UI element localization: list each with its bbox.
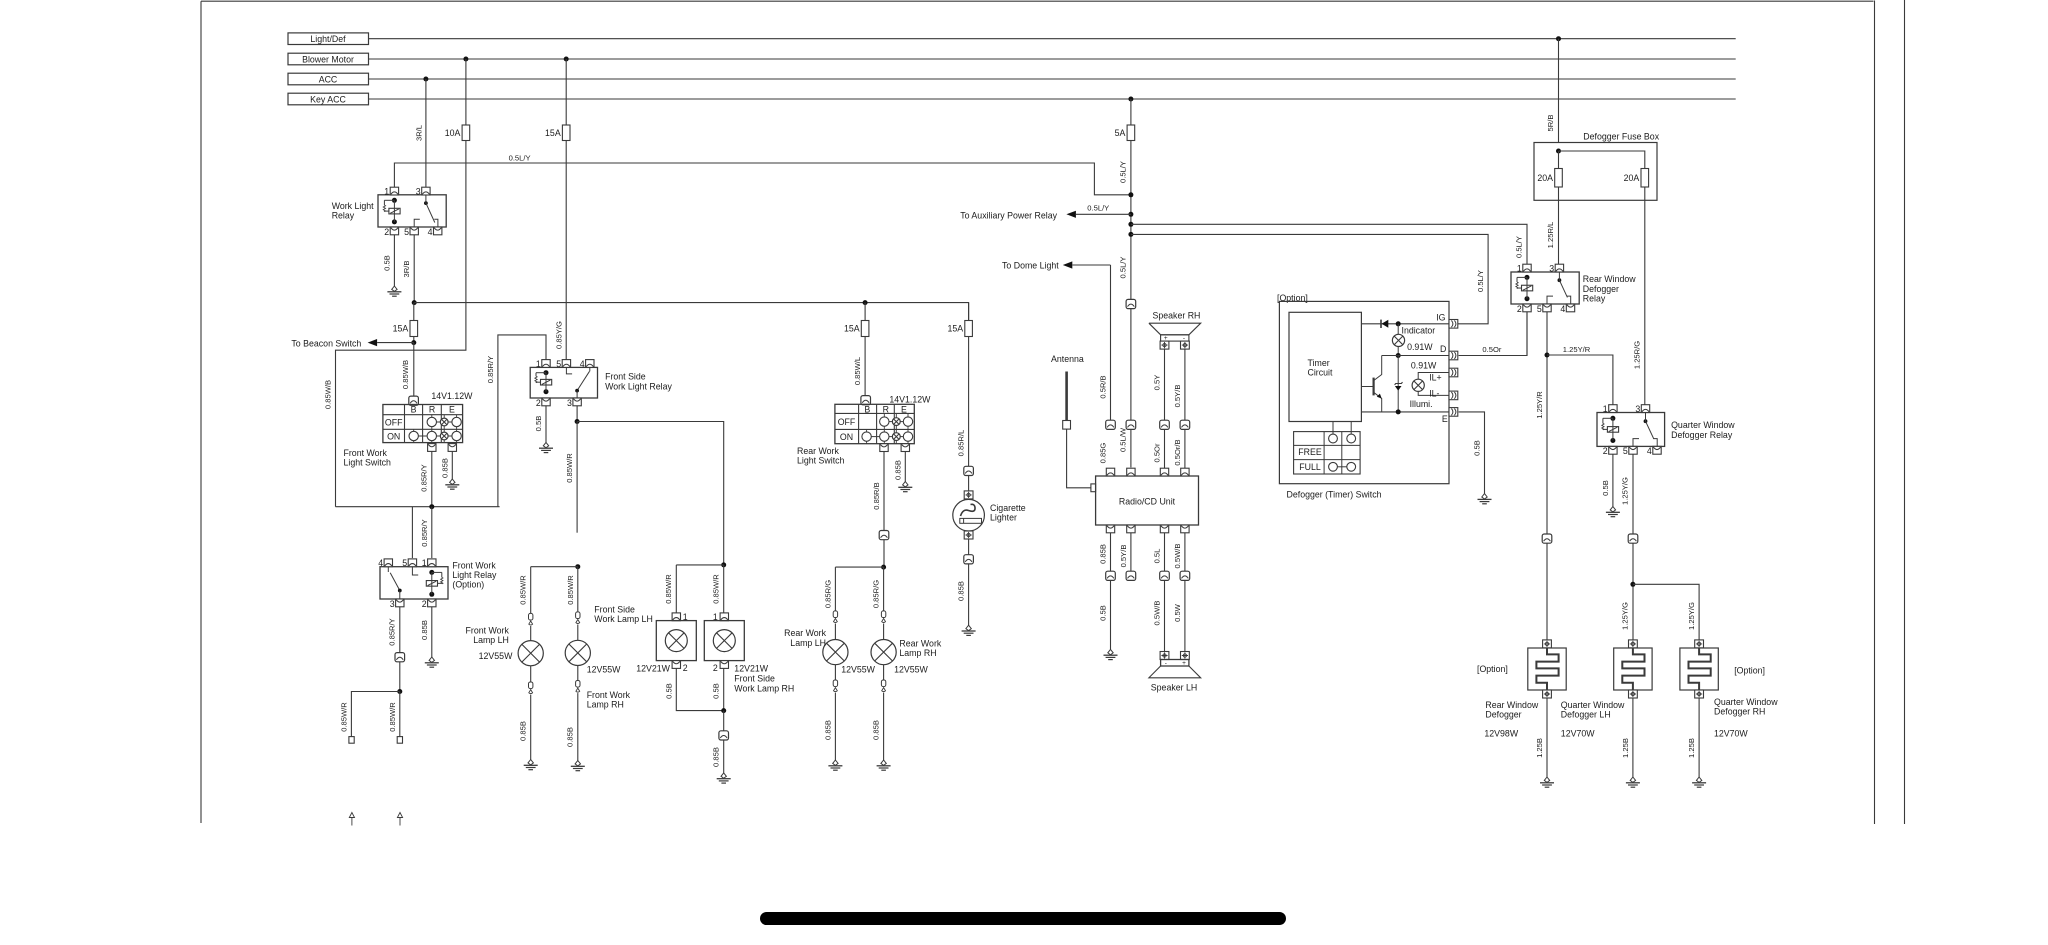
relay switch blade bbox=[589, 367, 591, 371]
relay coil bbox=[392, 198, 397, 203]
svg-text:Cigarette: Cigarette bbox=[990, 503, 1026, 513]
svg-text:0.85B: 0.85B bbox=[823, 720, 832, 740]
pin 1 bbox=[1609, 405, 1617, 413]
relay U3 Front Work Light Relay (Option) box bbox=[380, 567, 448, 599]
pin 4 bbox=[586, 360, 594, 368]
svg-text:Antenna: Antenna bbox=[1051, 354, 1084, 364]
svg-text:3: 3 bbox=[1635, 404, 1640, 414]
svg-text:0.5W/B: 0.5W/B bbox=[1173, 544, 1182, 569]
branch to quarter defogger RH bbox=[1633, 584, 1699, 648]
relay coil bbox=[429, 570, 434, 575]
ground rear lamp RH bbox=[881, 760, 886, 765]
svg-text:Defogger (Timer) Switch: Defogger (Timer) Switch bbox=[1287, 490, 1382, 500]
svg-text:1.25Y/G: 1.25Y/G bbox=[1621, 602, 1630, 630]
svg-text:0.5Y/B: 0.5Y/B bbox=[1119, 545, 1128, 568]
connector rear switch B bbox=[861, 396, 871, 405]
wire to rear defogger relay pin1 bbox=[1128, 222, 1133, 227]
svg-text:1.25R/L: 1.25R/L bbox=[1546, 222, 1555, 249]
svg-text:0.85W/R: 0.85W/R bbox=[565, 453, 574, 483]
ground quarter LH bbox=[1630, 777, 1635, 782]
svg-text:12V55W: 12V55W bbox=[894, 665, 928, 675]
wire 0.85W/R pin3 down bbox=[576, 406, 578, 422]
svg-text:Rear Work: Rear Work bbox=[797, 446, 839, 456]
wire Blower to 15A fuse bbox=[565, 59, 567, 125]
svg-text:Defogger RH: Defogger RH bbox=[1714, 707, 1765, 717]
wire 0.85B front switch E to ground bbox=[451, 451, 453, 479]
svg-text:Radio/CD Unit: Radio/CD Unit bbox=[1119, 497, 1176, 507]
svg-text:14V1.12W: 14V1.12W bbox=[889, 394, 931, 404]
svg-text:Lighter: Lighter bbox=[990, 513, 1017, 523]
wire 10A fuse down bbox=[336, 141, 466, 507]
pin4 hook bbox=[1653, 439, 1657, 447]
pin5 stub bbox=[1633, 439, 1639, 447]
ground front side relay bbox=[543, 442, 548, 447]
pin 2 bbox=[1523, 304, 1531, 312]
cigarette lighter bottom terminal bbox=[964, 531, 973, 539]
pin 1 bbox=[428, 559, 436, 567]
svg-text:1.25Y/R: 1.25Y/R bbox=[1563, 345, 1591, 354]
svg-text:2: 2 bbox=[1603, 446, 1608, 456]
pin 5 bbox=[410, 227, 418, 235]
pin 3 bbox=[422, 187, 430, 195]
svg-text:Quarter Window: Quarter Window bbox=[1561, 700, 1625, 710]
pin5 stub bbox=[412, 567, 418, 575]
radio bottom pins bbox=[1106, 525, 1114, 533]
speaker RH terminals bbox=[1160, 341, 1169, 349]
svg-text:0.5Y: 0.5Y bbox=[1152, 375, 1161, 391]
wire 1.25R/L to rear defogger relay pin3 bbox=[1558, 187, 1560, 264]
ground rear window bbox=[1544, 777, 1549, 782]
svg-text:1: 1 bbox=[1603, 404, 1608, 414]
ground lamp LH bbox=[528, 760, 533, 765]
wire 0.85R/G lamp LH bbox=[834, 567, 836, 611]
svg-text:0.5W: 0.5W bbox=[1173, 603, 1182, 622]
wire pin3 branch to front side lamps bbox=[577, 422, 724, 565]
relay switch blade bbox=[387, 567, 389, 572]
pin 2 bbox=[390, 227, 398, 235]
wire 0.85R/L 15A to lighter bbox=[968, 337, 970, 467]
svg-text:1.25R/G: 1.25R/G bbox=[1633, 341, 1642, 369]
svg-text:Defogger: Defogger bbox=[1485, 710, 1521, 720]
svg-text:0.85R/G: 0.85R/G bbox=[872, 580, 881, 608]
wire 0.5B E to ground bbox=[1459, 412, 1485, 494]
svg-text:OFF: OFF bbox=[838, 417, 856, 427]
connector inline 0.85R/L bbox=[964, 466, 974, 475]
svg-text:5A: 5A bbox=[1115, 128, 1126, 138]
fuse 10A bbox=[462, 125, 470, 141]
svg-text:Indicator: Indicator bbox=[1402, 325, 1436, 335]
pin 1 bbox=[390, 187, 398, 195]
timer circuit box bbox=[1289, 312, 1361, 421]
svg-text:5: 5 bbox=[556, 359, 561, 369]
continuation arrow right bbox=[397, 813, 402, 818]
svg-text:4: 4 bbox=[580, 359, 585, 369]
terminal lug right bbox=[397, 737, 402, 744]
svg-text:Rear Window: Rear Window bbox=[1485, 700, 1538, 710]
wire rear lamps feed bbox=[883, 540, 885, 567]
svg-text:10A: 10A bbox=[445, 128, 461, 138]
svg-text:3R/L: 3R/L bbox=[414, 125, 423, 141]
connector inline 0.85B bbox=[723, 711, 725, 731]
svg-text:Key ACC: Key ACC bbox=[310, 94, 346, 104]
wire timer to IG with diode bbox=[1361, 323, 1449, 325]
svg-text:ON: ON bbox=[840, 432, 853, 442]
fuse 15A front work light bbox=[410, 321, 418, 337]
wire 5A fuse down to radio bbox=[1130, 141, 1132, 468]
bus label ACC bbox=[288, 73, 369, 85]
svg-text:0.5L/Y: 0.5L/Y bbox=[509, 154, 531, 163]
svg-text:0.85B: 0.85B bbox=[712, 747, 721, 767]
svg-text:Work Light: Work Light bbox=[332, 201, 374, 211]
svg-text:Front Work: Front Work bbox=[452, 560, 496, 570]
wire 0.85B to ground bbox=[723, 740, 725, 773]
junction Key ACC bus x1131 bbox=[1128, 97, 1133, 102]
svg-text:12V70W: 12V70W bbox=[1714, 729, 1748, 739]
defogger element rear window top terminal bbox=[1543, 640, 1552, 648]
wire 1.25B quarter RH ground bbox=[1698, 698, 1700, 777]
svg-text:Lamp LH: Lamp LH bbox=[790, 638, 826, 648]
ground rear switch bbox=[903, 482, 908, 487]
bus wire ACC bbox=[369, 78, 1736, 80]
svg-text:[Option]: [Option] bbox=[1477, 664, 1508, 674]
junction 3R/B bus bbox=[412, 300, 417, 305]
svg-text:0.85R/Y: 0.85R/Y bbox=[486, 356, 495, 383]
relay U4 Rear Window Defogger Relay box bbox=[1511, 272, 1579, 304]
connector rear lamp LH bottom bbox=[834, 665, 836, 680]
defogger element quarter RH bbox=[1680, 648, 1718, 690]
svg-text:3: 3 bbox=[416, 186, 421, 196]
lamp Front Work Lamp LH bbox=[518, 641, 543, 666]
pin 1 bbox=[542, 360, 550, 368]
svg-text:Defogger LH: Defogger LH bbox=[1561, 710, 1611, 720]
pin4 hook bbox=[1567, 296, 1571, 304]
svg-text:0.5B: 0.5B bbox=[1098, 605, 1107, 621]
connector rear lamp RH top bbox=[881, 611, 885, 618]
continuation arrow left bbox=[349, 813, 354, 818]
connector inline 0.5Or/B bbox=[1180, 420, 1190, 429]
wire 0.85B rear lamp LH ground bbox=[834, 693, 836, 760]
junction Blower bus x466 bbox=[463, 57, 468, 62]
svg-text:Lamp RH: Lamp RH bbox=[899, 648, 936, 658]
svg-text:15A: 15A bbox=[393, 324, 409, 334]
speaker LH wires bbox=[1164, 533, 1166, 571]
svg-text:3: 3 bbox=[1549, 263, 1554, 273]
connector rear lamp LH top bbox=[833, 611, 837, 618]
pin 4 bbox=[384, 559, 392, 567]
wire 1.25Y/R pin5 down bbox=[1546, 312, 1548, 534]
wire 0.85R/Y option pin3 down bbox=[399, 607, 401, 653]
svg-text:0.5Or/B: 0.5Or/B bbox=[1173, 439, 1182, 465]
ground work light relay bbox=[392, 286, 397, 291]
connector lamp LH bottom bbox=[530, 666, 532, 682]
svg-text:Work Light Relay: Work Light Relay bbox=[605, 381, 672, 391]
bus wire Key ACC bbox=[369, 98, 1736, 100]
fuse 5A bbox=[1127, 125, 1135, 141]
svg-text:0.85W/R: 0.85W/R bbox=[664, 574, 673, 604]
svg-text:0.85W/R: 0.85W/R bbox=[519, 575, 528, 605]
svg-text:0.91W: 0.91W bbox=[1411, 360, 1437, 370]
relay switch blade bbox=[424, 201, 428, 205]
svg-text:12V55W: 12V55W bbox=[587, 664, 621, 674]
pin 5 bbox=[1543, 304, 1551, 312]
svg-text:Light/Def: Light/Def bbox=[310, 34, 346, 44]
svg-text:IG: IG bbox=[1436, 312, 1445, 322]
connector rear lamp RH bottom bbox=[883, 665, 885, 680]
wire 0.5B pin2 to ground bbox=[393, 235, 395, 286]
pin 5 bbox=[408, 559, 416, 567]
wire 0.85B rear switch E to ground bbox=[904, 452, 906, 482]
svg-text:15A: 15A bbox=[844, 324, 860, 334]
wire to quarter defoggers bbox=[1632, 543, 1634, 648]
connector lamp RH bottom bbox=[577, 666, 579, 680]
svg-text:20A: 20A bbox=[1624, 173, 1640, 183]
svg-text:Defogger Fuse Box: Defogger Fuse Box bbox=[1583, 132, 1659, 142]
wire 0.5B pin2 to ground bbox=[545, 406, 547, 443]
svg-text:Lamp RH: Lamp RH bbox=[587, 700, 624, 710]
svg-text:0.5R/B: 0.5R/B bbox=[1098, 375, 1107, 398]
svg-text:Front Side: Front Side bbox=[594, 604, 635, 614]
connector front switch B bbox=[409, 396, 419, 405]
svg-text:0.5B: 0.5B bbox=[1472, 440, 1481, 456]
svg-text:0.85B: 0.85B bbox=[420, 620, 429, 640]
wire 0.85B rear lamp RH ground bbox=[883, 693, 885, 760]
ground front switch bbox=[450, 479, 455, 484]
connector inline below lighter bbox=[968, 539, 970, 555]
svg-text:0.5B: 0.5B bbox=[664, 683, 673, 699]
wire to rear window defogger bbox=[1546, 543, 1548, 640]
svg-text:2: 2 bbox=[1517, 304, 1522, 314]
radio top pins bbox=[1106, 468, 1114, 476]
svg-text:2: 2 bbox=[683, 663, 688, 673]
wire 3R/L ACC to relay pin3 bbox=[425, 79, 427, 187]
wire 0.85R/Y to option relay pin1 bbox=[431, 507, 433, 558]
svg-text:Defogger Relay: Defogger Relay bbox=[1671, 430, 1733, 440]
junction Light/Def bus x1558 bbox=[1556, 36, 1561, 41]
svg-text:0.5B: 0.5B bbox=[1601, 480, 1610, 496]
svg-text:0.5L/W: 0.5L/W bbox=[1119, 427, 1128, 452]
connector lamp LH top bbox=[529, 613, 533, 620]
wire 0.5R/B dome to radio bbox=[1110, 265, 1112, 421]
svg-text:2: 2 bbox=[536, 398, 541, 408]
svg-text:0.85R/Y: 0.85R/Y bbox=[388, 618, 397, 645]
speaker LH bbox=[1160, 652, 1169, 660]
terminal lug left bbox=[349, 737, 354, 744]
svg-text:B: B bbox=[411, 405, 417, 415]
ground lighter bbox=[966, 625, 971, 630]
ground quarter relay bbox=[1610, 507, 1615, 512]
antenna connector at radio bbox=[1091, 484, 1096, 492]
svg-text:0.5Or: 0.5Or bbox=[1482, 345, 1501, 354]
svg-text:5: 5 bbox=[404, 227, 409, 237]
relay coil bbox=[1525, 275, 1530, 280]
pin 4 bbox=[1566, 304, 1574, 312]
wire Blower to 10A fuse bbox=[465, 59, 467, 125]
ground E bbox=[1482, 494, 1487, 499]
svg-text:Relay: Relay bbox=[332, 211, 355, 221]
ground quarter RH bbox=[1696, 777, 1701, 782]
svg-text:Front Work: Front Work bbox=[466, 626, 510, 636]
defogger element quarter RH bottom terminal bbox=[1695, 690, 1704, 698]
pin 4 bbox=[434, 227, 442, 235]
svg-text:12V55W: 12V55W bbox=[479, 651, 513, 661]
svg-text:12V98W: 12V98W bbox=[1484, 729, 1518, 739]
lamp Rear Work Lamp LH bbox=[823, 640, 848, 665]
wire to lighter bbox=[968, 476, 970, 491]
svg-text:12V55W: 12V55W bbox=[841, 665, 875, 675]
svg-text:Speaker RH: Speaker RH bbox=[1153, 310, 1201, 320]
wire 0.85W/L fuse to rear switch bbox=[864, 337, 866, 397]
cigarette lighter top terminal bbox=[964, 491, 973, 499]
front switch bottom pins bbox=[428, 444, 436, 452]
svg-text:Work Lamp RH: Work Lamp RH bbox=[734, 683, 794, 693]
svg-text:Work Lamp LH: Work Lamp LH bbox=[594, 614, 653, 624]
pin 3 bbox=[1555, 264, 1563, 272]
svg-text:0.85W/B: 0.85W/B bbox=[401, 360, 410, 389]
wire 0.5Or D to rear relay pin2 bbox=[1459, 313, 1527, 356]
bottom scroll bar bbox=[760, 912, 1286, 925]
svg-text:2: 2 bbox=[422, 599, 427, 609]
pin 2 bbox=[1609, 446, 1617, 454]
wire 15A to front-side relay pin5 bbox=[565, 141, 567, 360]
svg-text:4: 4 bbox=[428, 227, 433, 237]
relay switch blade bbox=[1558, 278, 1562, 282]
svg-text:0.5L/Y: 0.5L/Y bbox=[1476, 270, 1485, 292]
svg-text:0.85G: 0.85G bbox=[1098, 443, 1107, 464]
junction ACC bus x426 bbox=[423, 77, 428, 82]
svg-text:0.85W/R: 0.85W/R bbox=[388, 702, 397, 732]
rear switch bottom pins bbox=[880, 444, 888, 452]
connector inline 1.25Y/R bbox=[1542, 534, 1552, 543]
svg-text:0.85W/L: 0.85W/L bbox=[853, 357, 862, 385]
svg-text:20A: 20A bbox=[1537, 173, 1553, 183]
wire 1.25R/G to quarter relay pin3 bbox=[1644, 187, 1646, 405]
connector radio feed 1 bbox=[1106, 420, 1116, 429]
svg-text:IL-: IL- bbox=[1429, 388, 1439, 398]
wire 3R/B pin5 down bbox=[413, 235, 415, 303]
svg-text:FULL: FULL bbox=[1299, 462, 1321, 472]
svg-text:0.5B: 0.5B bbox=[712, 683, 721, 699]
svg-text:E: E bbox=[901, 404, 907, 414]
E node wire bbox=[1361, 411, 1449, 413]
svg-text:ON: ON bbox=[387, 432, 400, 442]
IL+ connector bbox=[1418, 373, 1449, 380]
svg-text:D: D bbox=[1440, 344, 1446, 354]
pin 3 bbox=[573, 398, 581, 406]
pin4 hook bbox=[434, 219, 438, 227]
svg-text:0.85B: 0.85B bbox=[566, 727, 575, 747]
svg-text:Lamp LH: Lamp LH bbox=[473, 635, 509, 645]
svg-text:Front Side: Front Side bbox=[734, 674, 775, 684]
node front side lamps feed bbox=[721, 562, 726, 567]
junction Blower bus x566 bbox=[564, 57, 569, 62]
svg-text:0.85W/R: 0.85W/R bbox=[712, 574, 721, 604]
diode bbox=[1382, 320, 1389, 328]
svg-text:12V70W: 12V70W bbox=[1561, 729, 1595, 739]
svg-text:0.5L/Y: 0.5L/Y bbox=[1515, 236, 1524, 258]
radio/CD unit box bbox=[1096, 476, 1199, 525]
svg-text:R: R bbox=[429, 405, 435, 415]
svg-text:0.85B: 0.85B bbox=[957, 581, 966, 601]
svg-text:[Option]: [Option] bbox=[1734, 666, 1765, 676]
wire to rear 15A fuse bbox=[864, 303, 866, 321]
lamp Indicator bbox=[1397, 324, 1399, 335]
wire 1.25Y/G pin5 down bbox=[1632, 454, 1634, 534]
pin 1 bbox=[1523, 264, 1531, 272]
fuse 20A right bbox=[1641, 169, 1649, 188]
wire pin3 to terminals bbox=[399, 662, 401, 692]
ground lamp RH bbox=[575, 761, 580, 766]
svg-text:(Option): (Option) bbox=[452, 580, 484, 590]
wire 0.5L/Y main feed bbox=[394, 163, 1131, 195]
lamp Rear Work Lamp RH bbox=[871, 640, 896, 665]
wire net y507 bbox=[336, 506, 500, 508]
bus wire Light/Def bbox=[369, 38, 1736, 40]
svg-text:0.85B: 0.85B bbox=[872, 720, 881, 740]
svg-text:Timer: Timer bbox=[1308, 358, 1330, 368]
svg-text:To Dome Light: To Dome Light bbox=[1002, 260, 1059, 270]
svg-text:Light Switch: Light Switch bbox=[344, 458, 392, 468]
svg-text:Light Relay: Light Relay bbox=[452, 570, 497, 580]
switch SW1 Front Work Light Switch grid bbox=[383, 405, 463, 443]
wire 5R/B to defogger fuse box bbox=[1558, 39, 1560, 143]
radio bottom wires bbox=[1110, 533, 1112, 571]
wire 0.85B option pin2 to ground bbox=[431, 607, 433, 657]
cigarette lighter body bbox=[953, 499, 985, 531]
fuse 15A blower bbox=[562, 125, 570, 141]
svg-text:Light Switch: Light Switch bbox=[797, 456, 845, 466]
svg-text:1.25Y/R: 1.25Y/R bbox=[1535, 391, 1544, 419]
defogger element rear window bottom terminal bbox=[1543, 690, 1552, 698]
connector inline pin3 bbox=[395, 653, 405, 662]
rear switch OFF row contacts bbox=[883, 413, 885, 417]
pin5 stub bbox=[414, 219, 420, 227]
wire to defogger timer IG bbox=[1128, 232, 1133, 237]
svg-text:0.85B: 0.85B bbox=[440, 458, 449, 478]
svg-text:14V1.12W: 14V1.12W bbox=[431, 391, 473, 401]
wire 0.85W/B fuse to front switch bbox=[413, 343, 415, 397]
lamp box Front Side Work Lamp LH bbox=[672, 613, 680, 621]
pin 2 bbox=[428, 599, 436, 607]
page border frame bbox=[201, 0, 1874, 2]
IG connector bbox=[1449, 320, 1458, 329]
bus label Blower Motor bbox=[288, 53, 369, 65]
svg-text:Front Work: Front Work bbox=[587, 690, 631, 700]
relay U1 Work Light Relay box bbox=[378, 195, 446, 227]
svg-text:To Auxiliary Power Relay: To Auxiliary Power Relay bbox=[960, 210, 1057, 220]
front switch ON row contacts bbox=[413, 429, 415, 431]
bus label Light/Def bbox=[288, 33, 369, 45]
svg-text:Quarter Window: Quarter Window bbox=[1714, 697, 1778, 707]
defogger element quarter LH bottom terminal bbox=[1629, 690, 1638, 698]
wire 3R/B horizontal to 15A fuses bbox=[414, 303, 968, 321]
svg-text:0.85B: 0.85B bbox=[1098, 544, 1107, 564]
svg-text:4: 4 bbox=[1647, 446, 1652, 456]
svg-text:15A: 15A bbox=[947, 324, 963, 334]
lamp box Front Side Work Lamp RH bbox=[720, 613, 728, 621]
svg-text:5R/B: 5R/B bbox=[1546, 115, 1555, 132]
svg-text:0.5W/B: 0.5W/B bbox=[1152, 601, 1161, 626]
svg-text:0.5L: 0.5L bbox=[1152, 549, 1161, 564]
svg-text:0.85R/G: 0.85R/G bbox=[823, 580, 832, 608]
radio stub 0.5Y/B bbox=[1130, 533, 1132, 571]
wire 0.85W/R to lamp LH bbox=[530, 567, 532, 617]
svg-text:0.85Y/G: 0.85Y/G bbox=[554, 321, 563, 349]
ground radio bbox=[1108, 649, 1113, 654]
svg-text:0.5L/Y: 0.5L/Y bbox=[1119, 161, 1128, 183]
svg-text:0.85W/B: 0.85W/B bbox=[324, 380, 333, 409]
wire 0.5B lamps to common bbox=[676, 668, 723, 710]
pin 5 bbox=[562, 360, 570, 368]
